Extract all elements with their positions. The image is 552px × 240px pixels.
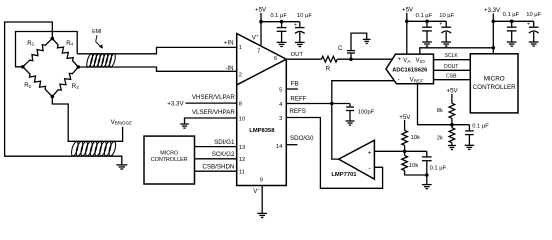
svg-text:0.1 µF: 0.1 µF [503, 12, 520, 18]
capacitor 10uF (ADC supply) [439, 21, 451, 46]
pin 13 [239, 145, 245, 151]
wire V+ pin 7 supply [260, 13, 262, 46]
svg-text:0.1 µF: 0.1 µF [270, 13, 287, 19]
label REFS [289, 108, 306, 115]
junction [510, 20, 514, 24]
svg-text:VIO: VIO [416, 58, 425, 65]
svg-text:10 µF: 10 µF [297, 13, 312, 19]
junction [492, 20, 496, 24]
label CSB [446, 74, 457, 80]
svg-text:MICRO: MICRO [160, 150, 178, 156]
power +5V (amp) [255, 6, 267, 13]
wire VA supply [406, 13, 408, 54]
power +5V (divider) [399, 114, 411, 121]
pin 3 [279, 116, 282, 122]
op-amp U1 LMP8358 outline [237, 34, 287, 186]
resistor R3 [52, 67, 78, 97]
pin 7 [257, 48, 260, 54]
wire V- pin 9 [261, 186, 263, 214]
svg-text:CSB/SHDN: CSB/SHDN [202, 163, 234, 170]
svg-text:+: + [527, 22, 530, 28]
label R3 [72, 83, 79, 90]
ADC U2 ADC161S626 outline [386, 54, 434, 84]
svg-text:DOUT: DOUT [444, 64, 458, 70]
power +3.3V (pin 8) [167, 100, 184, 107]
label +IN [224, 40, 234, 47]
pin 14 SDO/G0 stub [286, 144, 297, 146]
micro controller box (right) [470, 54, 518, 113]
svg-text:5: 5 [279, 87, 282, 93]
svg-text:VA: VA [403, 58, 411, 65]
svg-text:SDO/G0: SDO/G0 [290, 135, 314, 142]
wire outer loop (bridge top node to ground-side choke wire) [5, 22, 122, 165]
op-amp U1 internal diagonal [237, 59, 287, 85]
op-amp U3 LMP7701 [339, 140, 375, 179]
label EMI [92, 29, 101, 35]
label SDO/G0 [290, 135, 314, 142]
svg-text:0.1 µF: 0.1 µF [430, 165, 447, 171]
pin 1 [239, 45, 242, 51]
svg-text:R1: R1 [27, 40, 34, 47]
label CSB/SHDN [202, 163, 234, 170]
wire CSB [434, 79, 471, 81]
svg-text:R3: R3 [72, 83, 79, 90]
label V- (pin 9) [253, 187, 260, 195]
label VLSER/VHPAR [192, 109, 235, 116]
EMI choke coil (signal pair) [86, 53, 117, 68]
junction [259, 20, 263, 24]
svg-text:10k: 10k [411, 135, 420, 141]
EMI choke coil (excitation pair) [70, 141, 117, 157]
pin 2 [239, 73, 242, 79]
svg-text:SDI/G1: SDI/G1 [214, 139, 235, 146]
label + (LMP7701) [368, 149, 372, 156]
wire LMP7701 +input [374, 150, 404, 152]
svg-text:V−: V− [253, 187, 260, 195]
svg-text:+: + [294, 22, 297, 28]
pin 9 [260, 177, 263, 183]
svg-text:+: + [368, 149, 372, 156]
wire REFF [286, 103, 350, 105]
wire VIO to +3.3V rail [420, 48, 494, 54]
junction REFF node [330, 102, 334, 106]
svg-text:V+: V+ [252, 33, 259, 41]
junction [280, 20, 284, 24]
svg-text:LMP8358: LMP8358 [249, 128, 275, 134]
svg-text:+5V: +5V [255, 6, 267, 13]
label C [338, 45, 343, 52]
wire +5V to 8k [451, 94, 453, 103]
svg-text:8: 8 [239, 101, 242, 107]
svg-text:0.1 µF: 0.1 µF [472, 123, 489, 129]
svg-text:ADC161S626: ADC161S626 [392, 67, 427, 73]
label 0.1 uF (8k node) [472, 123, 489, 129]
label 0.1 uF (ADC) [416, 13, 433, 19]
pin 4 [279, 102, 283, 108]
svg-text:6: 6 [274, 56, 277, 62]
power +5V (8k) [447, 88, 459, 95]
svg-text:R: R [326, 66, 331, 73]
svg-text:OUT: OUT [291, 52, 304, 58]
pin 6 [274, 56, 277, 62]
svg-text:EMI: EMI [92, 29, 101, 35]
label SCLK [445, 53, 459, 59]
label 0.1 uF (+3.3V) [503, 12, 520, 18]
pin 5 [279, 87, 282, 93]
label 10k (lower) [409, 163, 418, 169]
resistor 2k [449, 125, 455, 146]
label VIO [416, 58, 425, 65]
ground (pin 9) [257, 213, 267, 217]
pin 11 [239, 170, 245, 176]
label V+ (pin 7) [252, 33, 259, 41]
junction divider node [403, 150, 407, 154]
svg-text:8k: 8k [437, 108, 443, 114]
wire DOUT [434, 69, 471, 71]
capacitor 10uF (amp supply) [294, 22, 305, 47]
junction [425, 20, 429, 24]
svg-text:10k: 10k [409, 163, 418, 169]
power +3.3V (right) [484, 7, 501, 14]
resistor R1 [23, 39, 53, 67]
label 0.1 uF [270, 13, 287, 19]
svg-text:-IN: -IN [225, 65, 233, 72]
pin 5 FB stub [286, 88, 298, 90]
svg-text:SCK/G2: SCK/G2 [212, 151, 235, 158]
svg-text:10 µF: 10 µF [526, 12, 541, 18]
micro controller box (left) [144, 136, 195, 184]
svg-text:REFF: REFF [290, 95, 306, 102]
label R [326, 66, 331, 73]
label R4 [66, 40, 73, 47]
svg-text:CONTROLLER: CONTROLLER [151, 157, 188, 163]
label - (LMP7701) [368, 165, 370, 172]
label R1 [27, 40, 34, 47]
wire SCK/G2 [195, 158, 237, 160]
label VHSER/VLPAR [192, 94, 235, 101]
label VBRIDGE [111, 119, 132, 126]
svg-text:2: 2 [239, 73, 242, 79]
resistor R (output filter) [321, 56, 337, 62]
label -IN [225, 65, 233, 72]
svg-text:3: 3 [279, 116, 282, 122]
svg-text:-: - [398, 77, 400, 83]
resistor 10k (lower) [402, 151, 408, 170]
label ADC161S626 [392, 67, 427, 73]
svg-text:100pF: 100pF [358, 110, 375, 116]
svg-text:-: - [368, 165, 370, 172]
pin 14 [276, 144, 283, 150]
svg-text:R2: R2 [24, 82, 31, 89]
svg-text:VBRIDGE: VBRIDGE [111, 119, 132, 126]
wire +5V rail (amp) [261, 21, 300, 23]
node bridge right [77, 65, 81, 69]
resistor 8k [449, 103, 455, 118]
label 10 uF [297, 13, 312, 19]
capacitor 0.1uF (divider) [422, 151, 432, 188]
wire VREF to divider node [418, 84, 452, 125]
label 10 uF (ADC) [439, 13, 454, 19]
svg-text:VREF: VREF [410, 77, 424, 84]
svg-text:+IN: +IN [224, 40, 234, 47]
junction [425, 173, 429, 177]
svg-text:SCLK: SCLK [445, 53, 459, 59]
wire bridge bottom node to VBRIDGE via choke [52, 97, 122, 142]
svg-text:1: 1 [239, 45, 242, 51]
svg-text:FB: FB [291, 81, 299, 88]
capacitor 10uF (+3.3V) [527, 21, 539, 46]
capacitor 0.1uF (ADC supply) [422, 21, 432, 46]
wire +3.3V rail [493, 20, 533, 22]
wire +3.3V stem [492, 14, 494, 54]
label DOUT [444, 64, 458, 70]
wire REFF node to ADC -input and to LMP7701 output [332, 81, 395, 159]
capacitor 0.1uF (8k node) [465, 125, 475, 150]
svg-text:CONTROLLER: CONTROLLER [473, 84, 516, 91]
capacitor 0.1uF (amp supply) [277, 22, 287, 47]
label 8k [437, 108, 443, 114]
ground (bridge excitation return) [116, 165, 127, 169]
svg-text:+5V: +5V [399, 114, 411, 121]
svg-text:+5V: +5V [402, 6, 414, 13]
label MICRO (left box) [160, 150, 178, 156]
pin 8 [239, 101, 242, 107]
ground (pin 10) [180, 124, 189, 128]
svg-text:+5V: +5V [447, 88, 459, 95]
svg-text:13: 13 [239, 145, 245, 151]
label LMP8358 [249, 128, 275, 134]
pin 10 [239, 116, 245, 122]
svg-text:10: 10 [239, 116, 245, 122]
wire bridge left node to EMI choke top wire [16, 32, 78, 67]
svg-text:12: 12 [239, 157, 245, 163]
svg-text:R4: R4 [66, 40, 73, 47]
wire +5V rail (ADC) [407, 20, 446, 22]
svg-text:2k: 2k [437, 136, 443, 142]
label SCK/G2 [212, 151, 235, 158]
svg-text:4: 4 [279, 102, 283, 108]
ground (2k) [448, 146, 456, 150]
svg-text:+: + [398, 57, 402, 63]
svg-text:+: + [439, 22, 442, 28]
resistor 10k (upper) [402, 130, 408, 145]
capacitor 0.1uF (+3.3V) [507, 21, 517, 46]
wire 10k to node [404, 145, 406, 151]
wire CSB/SHDN [195, 170, 237, 172]
junction 8k/2k node [450, 123, 454, 127]
svg-text:+3.3V: +3.3V [167, 100, 184, 107]
wire OUT [286, 58, 321, 60]
label SDI/G1 [214, 139, 235, 146]
label 2k [437, 136, 443, 142]
label LMP7701 [331, 172, 357, 178]
junction [492, 46, 496, 50]
svg-text:CSB: CSB [446, 74, 457, 80]
ground (C) [363, 39, 371, 43]
svg-text:9: 9 [260, 177, 263, 183]
pin 12 [239, 157, 245, 163]
svg-text:VHSER/VLPAR: VHSER/VLPAR [192, 94, 235, 101]
wire -IN path (choke bottom wire to amplifier pin 2) [78, 67, 236, 71]
label 0.1 uF (divider) [430, 165, 447, 171]
junction [405, 20, 409, 24]
svg-text:VLSER/VHPAR: VLSER/VHPAR [192, 109, 235, 116]
resistor R2 [23, 67, 53, 97]
wire R to ADC +input [337, 58, 392, 60]
label 100pF [358, 110, 375, 116]
label R2 [24, 82, 31, 89]
wire pin 10 to ground [185, 118, 237, 124]
ground (100pF) [346, 121, 355, 125]
label OUT [291, 52, 304, 58]
junction C node [349, 57, 353, 61]
wire +5V to 10k [404, 120, 406, 130]
label CONTROLLER (right box) [473, 84, 516, 91]
node bridge top [51, 37, 55, 41]
svg-text:14: 14 [276, 144, 283, 150]
capacitor 100pF [346, 104, 354, 121]
power +5V (ADC) [402, 6, 414, 13]
label 10k (upper) [411, 135, 420, 141]
EMI arrow [96, 35, 103, 48]
wire +IN path (choke top wire to amplifier pin 1) [77, 47, 237, 53]
label - VREF [398, 77, 424, 84]
resistor R4 [52, 39, 78, 68]
wire SDI/G1 [195, 146, 237, 148]
svg-text:MICRO: MICRO [484, 75, 505, 82]
svg-text:11: 11 [239, 170, 245, 176]
capacitor C (filter) [347, 33, 367, 59]
svg-text:+3.3V: +3.3V [484, 7, 501, 14]
svg-text:LMP7701: LMP7701 [331, 172, 357, 178]
label FB [291, 81, 299, 88]
label + VA [398, 57, 412, 65]
label 10 uF (+3.3V) [526, 12, 541, 18]
svg-text:C: C [338, 45, 343, 52]
label MICRO (right box) [484, 75, 505, 82]
wire node to 0.1uF [405, 150, 427, 152]
wire node to 0.1uF (8k node) [452, 124, 470, 126]
label REFF [290, 95, 306, 102]
svg-text:7: 7 [257, 48, 260, 54]
wire 10k lower to cap stem [405, 171, 427, 176]
svg-text:0.1 µF: 0.1 µF [416, 13, 433, 19]
svg-text:10 µF: 10 µF [439, 13, 454, 19]
wire REFS (force/sense loop to LMP7701 inverting input) [286, 118, 382, 189]
node bridge bottom [51, 95, 55, 99]
svg-text:REFS: REFS [289, 108, 306, 115]
wire 8k to node [451, 118, 453, 124]
wire SCLK [434, 59, 471, 61]
node bridge left [21, 65, 25, 69]
wire +3.3V to pin 8 [186, 102, 237, 104]
label CONTROLLER (left box) [151, 157, 188, 163]
